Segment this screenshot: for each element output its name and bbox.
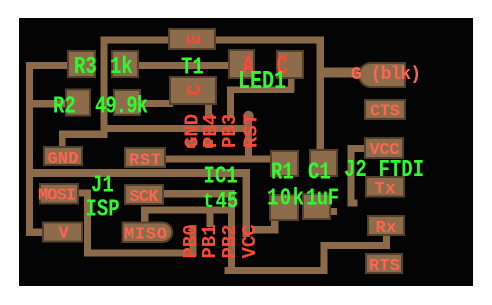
svg-text:1k: 1k [110, 54, 133, 81]
pad R1 bottom [270, 195, 298, 220]
wire PB4 stub [205, 104, 212, 116]
pad SCK J1 [125, 185, 163, 204]
pad A of LED1 [229, 50, 254, 78]
svg-text:RTS: RTS [369, 257, 400, 276]
wire MISO loop to PB1 [141, 207, 235, 214]
wire left vertical [26, 62, 33, 234]
svg-text:R2: R2 [53, 94, 76, 121]
wire horizontal to RST pin [101, 125, 252, 132]
svg-text:R3: R3 [74, 54, 97, 81]
pad R3 left [68, 51, 95, 77]
wire R3 row to LED A pad [138, 62, 231, 69]
pad MISO J1 (pill) [123, 223, 173, 243]
wire MOSI to PB0 [77, 190, 91, 197]
svg-text:ISP: ISP [86, 197, 120, 224]
svg-text:PB3: PB3 [219, 114, 241, 148]
pad C1 bottom [303, 194, 330, 219]
pad CTS J2 [365, 100, 405, 119]
wire C1 bottom nub [330, 208, 337, 215]
svg-text:10k: 10k [267, 186, 304, 213]
svg-text:VCC: VCC [239, 224, 261, 258]
wire GND branch from middle vertical [59, 131, 107, 139]
wire Rx to PB2 [383, 234, 390, 244]
svg-text:PB1: PB1 [199, 224, 221, 258]
svg-text:C: C [184, 84, 206, 95]
svg-text:G (blk): G (blk) [351, 65, 421, 85]
pad VCC J2 [365, 138, 403, 158]
pad R2 left [66, 90, 90, 116]
wire branch to V pad [26, 229, 45, 237]
wire right vertical to C1 [317, 37, 325, 151]
wire stub to G pad [324, 68, 362, 78]
wire SCK to PB2 [163, 190, 235, 198]
svg-text:LED1: LED1 [238, 67, 286, 96]
wire RST pad to R1 [164, 156, 272, 163]
pad RTS J2 [366, 254, 402, 273]
pad C of LED1 [277, 51, 303, 78]
wire top horizontal (RST net) [101, 37, 325, 44]
pin pad PB4 IC [205, 140, 213, 148]
svg-text:CTS: CTS [370, 103, 400, 122]
wire branch to R3 [26, 62, 68, 69]
pad C1 top [310, 150, 337, 176]
svg-text:T1: T1 [181, 55, 204, 82]
svg-text:IC1: IC1 [204, 164, 238, 191]
svg-text:E: E [184, 34, 206, 45]
svg-text:R1: R1 [271, 160, 294, 187]
svg-text:FTDI: FTDI [379, 157, 425, 184]
pad R1 top [271, 151, 298, 176]
svg-text:Rx: Rx [376, 219, 397, 238]
svg-text:49.9k: 49.9k [95, 94, 148, 121]
svg-text:RST: RST [241, 114, 263, 148]
wire FTDI VCC pad trace [349, 145, 365, 152]
wire RST pin vertical [243, 111, 253, 121]
svg-text:MOSI: MOSI [38, 187, 76, 206]
pad V J1 [43, 223, 82, 242]
pad E of T1 [169, 29, 215, 49]
pad Tx J2 [366, 177, 404, 197]
pad MOSI J1 [40, 184, 78, 204]
svg-text:GND: GND [48, 150, 79, 169]
pad GND J1 [44, 147, 82, 165]
wire VCC long horizontal [26, 169, 250, 177]
pin pad GND IC [187, 140, 195, 148]
svg-text:45: 45 [216, 190, 239, 215]
wire middle vertical [101, 37, 108, 139]
wire VCC leg down [243, 170, 251, 238]
pad R3 right [112, 51, 138, 77]
wire PB2 vertical [228, 190, 235, 274]
svg-text:PB2: PB2 [219, 224, 241, 258]
pad RST J1 [125, 148, 165, 167]
pad G J2 (pill) [359, 63, 405, 87]
svg-text:t: t [203, 189, 214, 214]
svg-text:1uF: 1uF [306, 186, 339, 213]
svg-text:C1: C1 [308, 160, 331, 187]
wire branch to R2 [26, 100, 68, 108]
svg-text:SCK: SCK [130, 188, 160, 207]
svg-text:V: V [59, 225, 70, 244]
wire R2 right to T1 C pad [140, 100, 173, 107]
svg-text:MISO: MISO [124, 226, 167, 245]
pad R2 right [114, 90, 140, 115]
wire LED C to PB3 [288, 78, 295, 91]
svg-text:J2: J2 [344, 157, 367, 184]
pad C of T1 [170, 77, 216, 104]
wire R1 bottom jog to VCC pin [271, 220, 279, 234]
svg-text:J1: J1 [91, 173, 114, 200]
svg-text:RST: RST [129, 152, 161, 171]
pad Rx J2 [368, 216, 404, 235]
